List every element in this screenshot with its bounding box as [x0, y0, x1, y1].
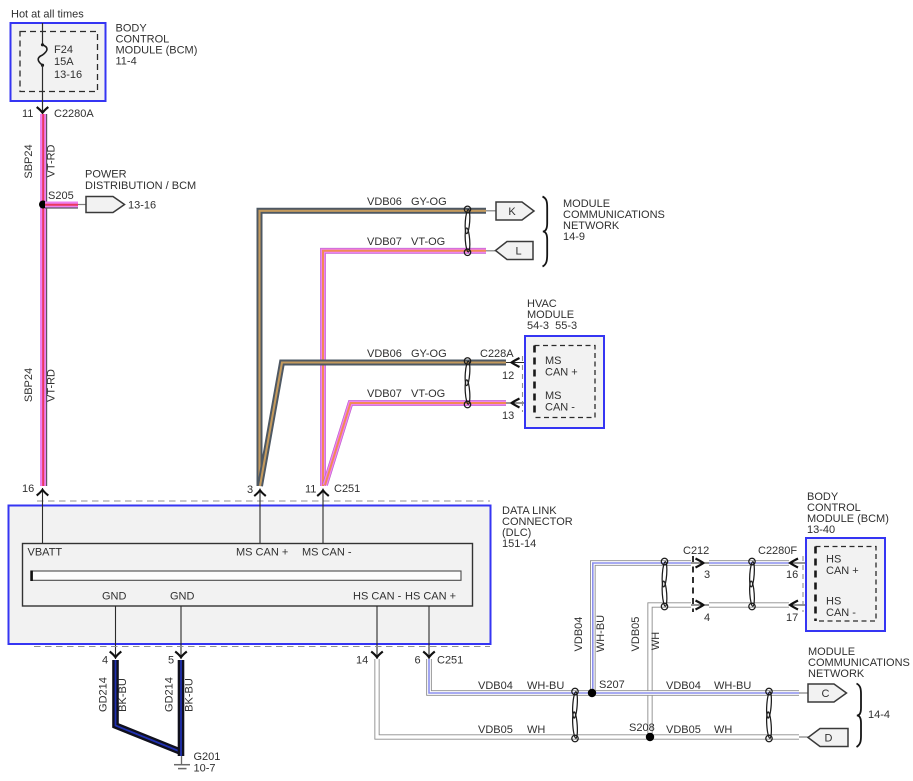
brace network C/D [857, 684, 862, 748]
svg-text:S208: S208 [629, 722, 655, 734]
svg-text:11: 11 [22, 108, 33, 120]
svg-text:C228A: C228A [480, 348, 514, 360]
stub to L [486, 250, 497, 252]
svg-text:HS: HS [826, 554, 841, 566]
twisted pair symbol (C212 left) [661, 558, 667, 609]
twisted pair symbol (bottom right) [766, 688, 772, 741]
fuse box BCM (power distribution) [11, 23, 106, 101]
svg-text:VDB07: VDB07 [367, 388, 402, 400]
connector dashed line C228A [522, 356, 524, 412]
svg-text:BK-BU: BK-BU [117, 678, 129, 712]
pin 4 line and arrow [115, 606, 117, 659]
wire pin 6 WH-BU vertical to run [429, 659, 799, 693]
svg-text:12: 12 [502, 370, 514, 382]
wire VDB07 VT-OG run2 (HVAC) with diagonal to pin 11 [325, 403, 506, 485]
stub to D [799, 736, 809, 738]
DLC inner connector rect [23, 544, 473, 607]
svg-text:WH-BU: WH-BU [527, 680, 564, 692]
twisted pair symbol (bottom left) [572, 688, 578, 741]
svg-text:11-4: 11-4 [116, 56, 137, 68]
C2280F pin 16 arrow and stub [789, 562, 818, 564]
svg-text:K: K [508, 206, 516, 218]
wire from fuse to pin 11 [42, 65, 44, 112]
svg-text:VDB07: VDB07 [367, 236, 402, 248]
pin 3 arrow into DLC [259, 489, 261, 544]
svg-text:3: 3 [247, 484, 253, 496]
svg-text:16: 16 [22, 483, 34, 495]
svg-text:4: 4 [704, 612, 710, 624]
svg-text:SBP24: SBP24 [23, 368, 35, 402]
svg-text:S205: S205 [48, 190, 74, 202]
wire SBP24 VT-RD vertical (pin 11 to pin 16) [43, 114, 47, 486]
stub to K [486, 210, 497, 212]
svg-text:WH: WH [714, 724, 732, 736]
svg-text:HS CAN +: HS CAN + [405, 591, 456, 603]
label MODULE COMMUNICATIONS NETWORK (bottom) [808, 646, 910, 680]
svg-text:MS: MS [545, 390, 562, 402]
svg-text:MS CAN +: MS CAN + [236, 547, 288, 559]
label BODY CONTROL MODULE (BCM) 11-4 [116, 23, 198, 68]
HVAC module box [525, 336, 604, 428]
C212 pin 3 arrow [691, 562, 709, 564]
svg-text:L: L [515, 246, 521, 258]
svg-text:WH-BU: WH-BU [595, 615, 607, 652]
connector dashed line C251 top [37, 500, 490, 502]
svg-text:VT-RD: VT-RD [46, 369, 58, 402]
connector D [808, 729, 848, 747]
svg-text:13: 13 [502, 410, 514, 422]
svg-text:14: 14 [356, 655, 368, 667]
svg-text:4: 4 [102, 655, 108, 667]
twisted pair symbol (K/L) [464, 206, 470, 255]
svg-text:Hot at all times: Hot at all times [11, 9, 84, 21]
pin 11 arrow into DLC [322, 489, 324, 544]
BCM module box [806, 538, 885, 631]
HVAC pin 13 arrow and stub [506, 402, 537, 404]
wire VDB07 VT-OG run1 (L) with vertical to pin 11 of DLC [323, 251, 486, 486]
svg-text:GY-OG: GY-OG [411, 196, 447, 208]
twisted pair symbol (C2280F) [749, 558, 755, 609]
wire VDB05 WH between C212 and C2280F [709, 602, 789, 607]
svg-text:13-16: 13-16 [128, 200, 156, 212]
connector C [808, 684, 847, 702]
svg-text:14-9: 14-9 [563, 231, 585, 243]
svg-text:WH-BU: WH-BU [714, 680, 751, 692]
wire pin 14 WH vertical to run [377, 659, 799, 737]
twisted pair symbol (HVAC) [464, 358, 470, 408]
label DATA LINK CONNECTOR (DLC) 151-14 [502, 505, 573, 550]
svg-text:VDB05: VDB05 [630, 617, 642, 652]
svg-text:C: C [822, 688, 830, 700]
connector C212 dashed line [692, 556, 694, 612]
svg-text:G201: G201 [194, 751, 221, 763]
wire GD214 BK-BU right (pin 5) [178, 660, 185, 756]
svg-text:F24: F24 [54, 44, 73, 56]
pin 14 line and arrow [376, 606, 378, 659]
C212 pin 4 arrow [691, 604, 709, 606]
svg-text:C251: C251 [437, 655, 463, 667]
wire VDB04 WH-BU top run with vertical to S207 [593, 563, 691, 693]
svg-text:VDB05: VDB05 [478, 724, 513, 736]
wire S205 branch VT-RD horizontal [45, 205, 78, 209]
wire VDB05 WH top run with vertical to S208 [650, 605, 691, 737]
label MODULE COMMUNICATIONS NETWORK 14-9 [563, 198, 665, 243]
svg-text:VT-OG: VT-OG [411, 388, 445, 400]
svg-text:GY-OG: GY-OG [411, 348, 447, 360]
svg-text:CAN -: CAN - [545, 402, 575, 414]
svg-text:CAN +: CAN + [545, 367, 578, 379]
svg-text:13-16: 13-16 [54, 69, 82, 81]
wire inside fuse box [42, 23, 44, 44]
wire GD214 BK-BU left (pin 4) [116, 660, 181, 752]
svg-text:VDB04: VDB04 [573, 617, 585, 652]
svg-text:CAN -: CAN - [826, 607, 856, 619]
svg-text:MS CAN -: MS CAN - [302, 547, 352, 559]
svg-text:GND: GND [102, 591, 127, 603]
svg-text:VBATT: VBATT [28, 547, 63, 559]
svg-text:10-7: 10-7 [194, 763, 216, 775]
svg-text:GD214: GD214 [164, 677, 176, 712]
svg-text:3: 3 [704, 569, 710, 581]
splice S208 [646, 733, 654, 741]
wire VDB04 WH-BU between C212 and C2280F [709, 560, 789, 566]
svg-text:C251: C251 [334, 483, 360, 495]
svg-text:S207: S207 [599, 679, 625, 691]
C2280F pin 17 arrow and stub [789, 604, 818, 606]
svg-text:VDB04: VDB04 [666, 680, 701, 692]
splice S205 [39, 201, 47, 209]
stub to connector 13-16 [78, 204, 86, 206]
svg-text:HS CAN -: HS CAN - [353, 591, 402, 603]
svg-text:VDB05: VDB05 [666, 724, 701, 736]
svg-text:VDB04: VDB04 [478, 680, 513, 692]
ground G201 [174, 756, 190, 769]
svg-text:VDB06: VDB06 [367, 196, 402, 208]
svg-text:BK-BU: BK-BU [184, 678, 196, 712]
svg-text:WH: WH [527, 724, 545, 736]
svg-text:MS: MS [545, 355, 562, 367]
brace network K/L [543, 197, 548, 267]
pin 5 line and arrow [180, 606, 182, 659]
svg-text:C2280A: C2280A [54, 108, 94, 120]
svg-text:C212: C212 [683, 545, 709, 557]
svg-text:GD214: GD214 [98, 677, 110, 712]
pin 16 arrow into DLC [42, 488, 44, 543]
wire VDB06 GY-OG run2 (HVAC) with diagonal to pin 3 [260, 363, 506, 487]
svg-text:C2280F: C2280F [758, 545, 797, 557]
svg-text:VDB06: VDB06 [367, 348, 402, 360]
DLC slot [31, 571, 461, 580]
svg-text:54-3 55-3: 54-3 55-3 [527, 320, 577, 332]
DLC box [9, 506, 491, 645]
svg-text:6: 6 [415, 655, 421, 667]
svg-text:16: 16 [786, 569, 798, 581]
splice S207 [588, 689, 596, 697]
svg-text:5: 5 [168, 655, 174, 667]
svg-text:15A: 15A [54, 56, 74, 68]
svg-text:HS: HS [826, 596, 841, 608]
svg-text:DISTRIBUTION / BCM: DISTRIBUTION / BCM [85, 180, 196, 192]
svg-text:POWER: POWER [85, 169, 127, 181]
svg-text:VT-RD: VT-RD [46, 144, 58, 177]
svg-text:SBP24: SBP24 [23, 144, 35, 178]
connector 13-16 POWER DISTRIBUTION / BCM [86, 197, 125, 213]
svg-text:WH: WH [650, 632, 662, 650]
HVAC pin 12 arrow and stub [506, 362, 537, 364]
svg-text:CAN +: CAN + [826, 565, 859, 577]
svg-text:GND: GND [170, 591, 195, 603]
svg-text:13-40: 13-40 [807, 524, 835, 536]
fuse F24 15A 13-16 [38, 45, 47, 65]
pin 6 line and arrow [428, 606, 430, 659]
wire VDB06 GY-OG run1 (K) with vertical to pin 3 [260, 211, 487, 486]
connector dashed line C251 bottom [34, 646, 490, 648]
svg-text:17: 17 [786, 612, 798, 624]
svg-text:NETWORK: NETWORK [808, 668, 865, 680]
svg-text:VT-OG: VT-OG [411, 236, 445, 248]
svg-text:14-4: 14-4 [868, 709, 890, 721]
pin 11 arrow C2280A [37, 107, 49, 113]
connector L [496, 242, 534, 260]
svg-text:11: 11 [305, 484, 316, 496]
svg-text:D: D [825, 733, 833, 745]
connector dashed line C2280F vertical [802, 556, 804, 612]
stub to C [799, 692, 809, 694]
svg-text:151-14: 151-14 [502, 538, 536, 550]
connector K [496, 202, 534, 220]
